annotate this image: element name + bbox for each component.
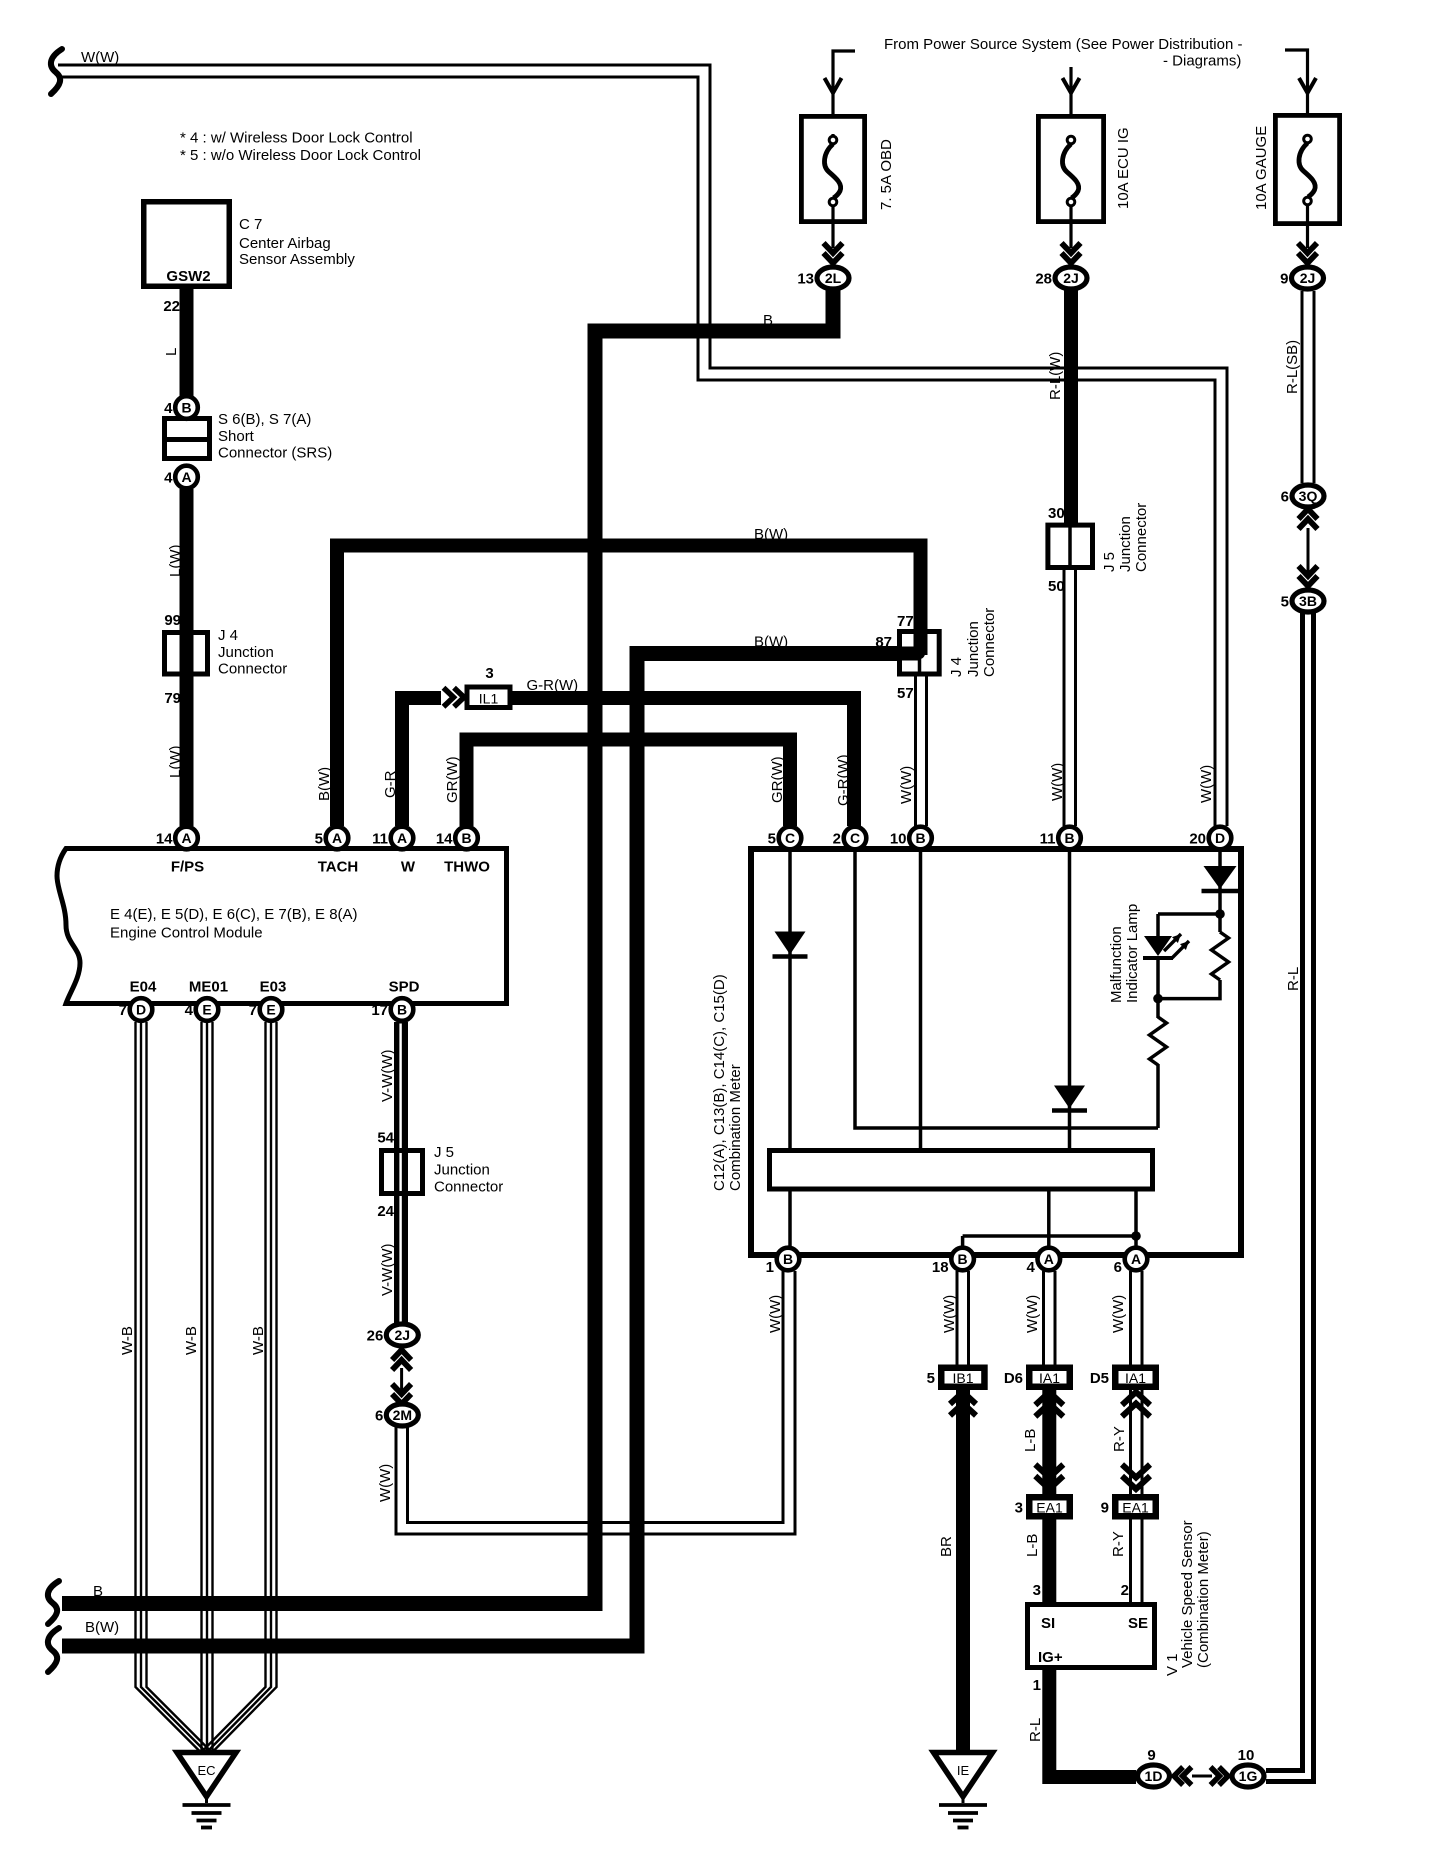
svg-text:B(W): B(W) — [316, 767, 333, 801]
svg-text:3: 3 — [485, 665, 493, 682]
svg-text:G-R(W): G-R(W) — [527, 677, 579, 694]
svg-text:2J: 2J — [395, 1327, 411, 1343]
svg-text:B: B — [397, 1002, 407, 1018]
svg-text:7: 7 — [119, 1002, 127, 1019]
svg-text:B: B — [461, 830, 471, 846]
svg-text:79: 79 — [164, 690, 181, 707]
svg-text:7: 7 — [249, 1002, 257, 1019]
svg-text:4: 4 — [164, 470, 173, 487]
svg-text:A: A — [1131, 1251, 1141, 1267]
svg-text:R-L: R-L — [1285, 967, 1302, 991]
svg-text:2: 2 — [1121, 1582, 1129, 1599]
svg-text:Connector: Connector — [434, 1179, 503, 1196]
svg-text:9: 9 — [1280, 271, 1288, 288]
svg-text:17: 17 — [371, 1002, 388, 1019]
svg-text:J 4: J 4 — [948, 657, 965, 677]
svg-text:THWO: THWO — [444, 859, 490, 876]
svg-text:C: C — [785, 830, 795, 846]
svg-text:Junction: Junction — [218, 644, 274, 661]
svg-text:R-Y: R-Y — [1111, 1426, 1128, 1452]
svg-text:5: 5 — [315, 831, 323, 848]
svg-text:26: 26 — [367, 1328, 384, 1345]
svg-text:R-L(W): R-L(W) — [1047, 352, 1064, 400]
svg-text:L(W): L(W) — [167, 746, 184, 779]
svg-text:20: 20 — [1189, 831, 1206, 848]
svg-text:Junction: Junction — [1117, 516, 1134, 572]
svg-text:Sensor Assembly: Sensor Assembly — [239, 251, 355, 268]
svg-text:J 5: J 5 — [1101, 552, 1118, 572]
svg-text:50: 50 — [1048, 578, 1065, 595]
svg-text:J 4: J 4 — [218, 627, 238, 644]
svg-text:2: 2 — [833, 831, 841, 848]
svg-text:F/PS: F/PS — [171, 859, 204, 876]
svg-text:Vehicle Speed Sensor: Vehicle Speed Sensor — [1179, 1520, 1196, 1668]
svg-text:B(W): B(W) — [754, 526, 788, 543]
svg-text:Connector: Connector — [1133, 503, 1150, 572]
svg-text:W(W): W(W) — [1198, 765, 1215, 803]
svg-text:GR(W): GR(W) — [444, 756, 461, 803]
svg-text:10A GAUGE: 10A GAUGE — [1253, 126, 1270, 210]
svg-text:10A ECU IG: 10A ECU IG — [1115, 127, 1132, 209]
svg-text:D5: D5 — [1090, 1370, 1109, 1387]
svg-text:B: B — [783, 1251, 793, 1267]
svg-text:SI: SI — [1041, 1615, 1055, 1632]
svg-text:V-W(W): V-W(W) — [379, 1244, 396, 1296]
svg-text:EA1: EA1 — [1122, 1500, 1149, 1516]
svg-text:Center Airbag: Center Airbag — [239, 235, 331, 252]
svg-text:9: 9 — [1101, 1500, 1109, 1517]
svg-text:A: A — [181, 830, 191, 846]
svg-text:D: D — [136, 1002, 146, 1018]
svg-text:10: 10 — [890, 831, 907, 848]
svg-text:99: 99 — [164, 612, 181, 629]
svg-text:B: B — [763, 312, 773, 329]
svg-text:3: 3 — [1015, 1500, 1023, 1517]
svg-text:GSW2: GSW2 — [166, 268, 210, 285]
svg-text:B: B — [181, 400, 191, 416]
svg-text:J 5: J 5 — [434, 1144, 454, 1161]
svg-text:V-W(W): V-W(W) — [379, 1050, 396, 1102]
svg-text:7. 5A OBD: 7. 5A OBD — [878, 139, 895, 210]
svg-text:3B: 3B — [1299, 593, 1317, 609]
svg-text:18: 18 — [932, 1259, 949, 1276]
svg-text:W(W): W(W) — [377, 1464, 394, 1502]
svg-text:W: W — [401, 859, 416, 876]
svg-text:E: E — [202, 1002, 211, 1018]
svg-text:6: 6 — [1281, 489, 1289, 506]
svg-text:Combination Meter: Combination Meter — [727, 1064, 744, 1191]
svg-text:B: B — [915, 830, 925, 846]
svg-text:Junction: Junction — [434, 1162, 490, 1179]
svg-text:28: 28 — [1035, 271, 1052, 288]
svg-text:B: B — [1064, 830, 1074, 846]
svg-text:10: 10 — [1238, 1747, 1255, 1764]
svg-text:W(W): W(W) — [767, 1295, 784, 1333]
svg-text:14: 14 — [436, 831, 453, 848]
svg-text:2J: 2J — [1063, 270, 1079, 286]
svg-text:4: 4 — [185, 1002, 194, 1019]
svg-text:A: A — [397, 830, 407, 846]
svg-text:S 6(B), S 7(A): S 6(B), S 7(A) — [218, 411, 311, 428]
svg-text:22: 22 — [163, 298, 180, 315]
svg-text:Engine Control Module: Engine Control Module — [110, 925, 263, 942]
svg-text:2M: 2M — [393, 1407, 412, 1423]
svg-text:R-L(SB): R-L(SB) — [1284, 340, 1301, 394]
svg-text:A: A — [1044, 1251, 1054, 1267]
svg-text:B(W): B(W) — [754, 634, 788, 651]
svg-text:EA1: EA1 — [1036, 1500, 1063, 1516]
svg-text:5: 5 — [927, 1370, 935, 1387]
svg-text:11: 11 — [1040, 831, 1056, 848]
svg-text:11: 11 — [372, 831, 388, 848]
svg-text:C12(A), C13(B), C14(C), C15(D): C12(A), C13(B), C14(C), C15(D) — [711, 974, 728, 1191]
svg-text:Junction: Junction — [965, 621, 982, 677]
svg-text:2L: 2L — [825, 270, 842, 286]
svg-text:6: 6 — [375, 1408, 383, 1425]
svg-text:* 5 : w/o Wireless Door Lock C: * 5 : w/o Wireless Door Lock Control — [180, 147, 421, 164]
svg-text:EC: EC — [197, 1763, 215, 1778]
svg-text:E04: E04 — [130, 979, 157, 996]
svg-text:2J: 2J — [1300, 270, 1316, 286]
svg-text:W-B: W-B — [183, 1326, 200, 1355]
svg-text:G-R(W): G-R(W) — [835, 754, 852, 806]
svg-text:R-Y: R-Y — [1110, 1531, 1127, 1557]
svg-text:W-B: W-B — [119, 1326, 136, 1355]
svg-text:W-B: W-B — [250, 1326, 267, 1355]
svg-text:W(W): W(W) — [1110, 1295, 1127, 1333]
svg-text:6: 6 — [1114, 1259, 1122, 1276]
svg-text:W(W): W(W) — [898, 766, 915, 804]
svg-text:E: E — [266, 1002, 275, 1018]
svg-text:D6: D6 — [1004, 1370, 1023, 1387]
svg-text:Indicator Lamp: Indicator Lamp — [1124, 904, 1141, 1003]
svg-text:B: B — [958, 1251, 968, 1267]
svg-text:77: 77 — [897, 613, 914, 630]
svg-text:1G: 1G — [1239, 1768, 1258, 1784]
svg-text:57: 57 — [897, 685, 914, 702]
svg-text:3: 3 — [1033, 1582, 1041, 1599]
svg-text:4: 4 — [164, 400, 173, 417]
svg-text:IG+: IG+ — [1038, 1649, 1063, 1666]
svg-text:SE: SE — [1128, 1615, 1148, 1632]
svg-text:Connector: Connector — [981, 608, 998, 677]
svg-text:9: 9 — [1147, 1747, 1155, 1764]
svg-text:L-B: L-B — [1022, 1429, 1039, 1452]
svg-text:4: 4 — [1026, 1259, 1035, 1276]
svg-text:30: 30 — [1048, 505, 1065, 522]
svg-text:87: 87 — [875, 634, 892, 651]
svg-text:- Diagrams): - Diagrams) — [1163, 53, 1241, 70]
svg-text:Short: Short — [218, 428, 255, 445]
svg-text:W(W): W(W) — [81, 49, 119, 66]
svg-text:W(W): W(W) — [941, 1295, 958, 1333]
svg-text:5: 5 — [1281, 594, 1289, 611]
svg-text:54: 54 — [377, 1130, 394, 1147]
svg-text:TACH: TACH — [318, 859, 359, 876]
svg-text:IL1: IL1 — [479, 691, 499, 707]
svg-text:BR: BR — [938, 1536, 955, 1557]
svg-text:Connector (SRS): Connector (SRS) — [218, 445, 332, 462]
svg-text:1: 1 — [1033, 1677, 1041, 1694]
svg-text:3Q: 3Q — [1299, 488, 1318, 504]
svg-text:A: A — [181, 469, 191, 485]
svg-text:Connector: Connector — [218, 661, 287, 678]
svg-text:A: A — [332, 830, 342, 846]
svg-text:C 7: C 7 — [239, 216, 262, 233]
svg-text:IA1: IA1 — [1039, 1370, 1060, 1386]
svg-text:IA1: IA1 — [1125, 1370, 1146, 1386]
svg-text:SPD: SPD — [389, 979, 420, 996]
svg-text:G-R: G-R — [382, 770, 399, 798]
svg-text:Malfunction: Malfunction — [1108, 926, 1125, 1003]
svg-text:1: 1 — [766, 1259, 774, 1276]
svg-text:(Combination Meter): (Combination Meter) — [1195, 1531, 1212, 1668]
svg-text:E03: E03 — [260, 979, 287, 996]
svg-text:24: 24 — [377, 1203, 394, 1220]
svg-text:D: D — [1215, 830, 1225, 846]
svg-text:14: 14 — [156, 831, 173, 848]
svg-text:E 4(E), E 5(D), E 6(C), E 7(B): E 4(E), E 5(D), E 6(C), E 7(B), E 8(A) — [110, 906, 358, 923]
svg-text:5: 5 — [768, 831, 776, 848]
svg-text:B: B — [93, 1583, 103, 1600]
svg-text:L-B: L-B — [1024, 1534, 1041, 1557]
svg-text:* 4 : w/ Wireless Door Lock Co: * 4 : w/ Wireless Door Lock Control — [180, 130, 413, 147]
svg-text:1D: 1D — [1145, 1768, 1163, 1784]
svg-text:GR(W): GR(W) — [769, 756, 786, 803]
svg-text:13: 13 — [797, 271, 814, 288]
svg-text:IB1: IB1 — [952, 1370, 973, 1386]
svg-text:W(W): W(W) — [1024, 1295, 1041, 1333]
svg-text:C: C — [850, 830, 860, 846]
svg-text:From Power Source System (See: From Power Source System (See Power Dist… — [884, 36, 1242, 53]
svg-text:L: L — [163, 348, 180, 356]
svg-text:ME01: ME01 — [189, 979, 228, 996]
svg-text:IE: IE — [957, 1763, 970, 1778]
svg-text:B(W): B(W) — [85, 1619, 119, 1636]
svg-text:W(W): W(W) — [1049, 763, 1066, 801]
svg-text:R-L: R-L — [1027, 1718, 1044, 1742]
svg-text:L(W): L(W) — [167, 545, 184, 578]
